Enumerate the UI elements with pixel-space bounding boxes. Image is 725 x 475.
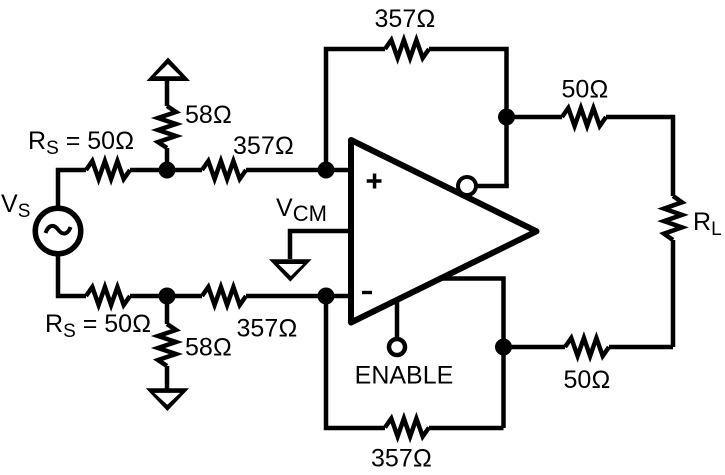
- op-amp plus sign: [367, 174, 382, 189]
- svg-text:50Ω: 50Ω: [563, 366, 610, 394]
- resistor 357 ohm feedback lower: [385, 419, 429, 437]
- node dot top input junction with feedback: [318, 162, 335, 179]
- resistor 357 ohm input lower: [202, 287, 246, 305]
- op-amp output bubble (inverting output): [458, 177, 476, 195]
- svg-text:357Ω: 357Ω: [375, 5, 436, 33]
- wire bottom input to op-amp minus input: [246, 294, 348, 299]
- wire 50 ohm lower lead: [504, 345, 566, 350]
- node dot bottom input junction with feedback: [318, 288, 335, 305]
- wire bottom feedback right segment: [429, 426, 504, 431]
- wire VS top lead: [58, 170, 86, 208]
- resistor RS bottom (50 ohm source resistance, lower): [86, 287, 130, 305]
- wire 58 ohm upper branch: [165, 78, 170, 170]
- svg-text:357Ω: 357Ω: [233, 132, 294, 160]
- resistor RS top (50 ohm source resistance, upper): [86, 161, 130, 179]
- wire RL bottom vertical: [671, 240, 676, 347]
- wire VS bottom lead: [58, 254, 86, 296]
- op-amp U1 triangle: [351, 140, 537, 323]
- wire lower output from op-amp: [439, 279, 504, 429]
- wire bottom input segment between RS and 357: [130, 294, 202, 299]
- wire 50 ohm upper lead: [507, 115, 563, 120]
- wire bottom feedback left vertical: [326, 296, 385, 428]
- wire top input segment between RS and 357: [130, 168, 202, 173]
- wire top feedback left vertical: [326, 49, 385, 170]
- ENABLE pin stub: [395, 300, 400, 339]
- ground arrow down VCM: [269, 259, 312, 281]
- svg-text:ENABLE: ENABLE: [355, 362, 454, 390]
- node dot upper output junction: [498, 109, 515, 126]
- svg-text:58Ω: 58Ω: [185, 334, 232, 362]
- svg-text:RS = 50Ω: RS = 50Ω: [28, 127, 134, 159]
- node dot lower output junction: [495, 339, 512, 356]
- svg-text:RS = 50Ω: RS = 50Ω: [45, 310, 151, 342]
- resistor 50 ohm lower: [565, 338, 609, 356]
- node dot bottom input junction with 58 ohm: [159, 288, 176, 305]
- wire top input to op-amp plus input: [246, 168, 348, 173]
- svg-text:357Ω: 357Ω: [237, 315, 298, 343]
- voltage source VS circle: [35, 208, 81, 254]
- wire 50 ohm lower to RL: [609, 345, 673, 350]
- svg-text:357Ω: 357Ω: [371, 445, 432, 473]
- op-amp minus sign: [362, 291, 372, 294]
- power supply arrow up: [147, 58, 191, 82]
- wire from output bubble to feedback node: [477, 184, 509, 189]
- wire to load RL top: [606, 117, 673, 196]
- wire VCM input: [290, 231, 348, 259]
- ENABLE pin circle: [389, 339, 405, 355]
- ground arrow down lower rail: [146, 388, 189, 411]
- wire 58 ohm lower branch: [165, 296, 170, 390]
- resistor 357 ohm input upper: [202, 161, 246, 179]
- resistor 357 ohm feedback upper: [385, 40, 429, 58]
- resistor 50 ohm upper: [562, 108, 606, 126]
- svg-text:58Ω: 58Ω: [185, 101, 232, 129]
- resistor RL load: [664, 196, 682, 240]
- resistor 58 ohm lower: [158, 324, 176, 366]
- resistor 58 ohm upper: [158, 106, 176, 148]
- node dot top input junction with 58 ohm: [159, 162, 176, 179]
- wire top feedback right vertical: [429, 49, 507, 186]
- sine symbol inside VS: [46, 226, 71, 234]
- svg-text:50Ω: 50Ω: [561, 76, 608, 104]
